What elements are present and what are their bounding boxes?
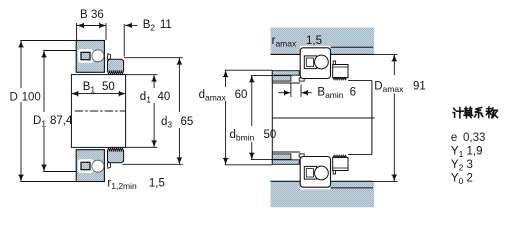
svg-text:B211: B211 — [143, 19, 172, 33]
dimension B2 extension line — [123, 24, 125, 57]
svg-text:Y02: Y02 — [451, 173, 473, 187]
ball bottom (right view) — [315, 166, 329, 180]
lock washer tab top (right view) — [333, 61, 335, 65]
svg-text:Y11,9: Y11,9 — [451, 146, 483, 160]
dimension D line — [20, 41, 22, 89]
cage window bottom (left view) — [78, 159, 93, 173]
shaft spacer ring top (right view) — [272, 76, 291, 82]
svg-text:d140: d140 — [140, 91, 170, 105]
cage pocket bottom (right view) — [306, 169, 313, 177]
svg-text:e0,33: e0,33 — [451, 132, 485, 144]
housing shoulder line top — [271, 53, 301, 55]
lock nut bottom (right view) — [333, 157, 348, 170]
svg-text:Damax91: Damax91 — [374, 81, 425, 95]
svg-text:d365: d365 — [161, 116, 193, 130]
shaft shoulder ring bottom (right view) — [272, 160, 299, 165]
shaft surface right of nut top — [348, 80, 372, 82]
dimension B2 leader — [125, 24, 138, 26]
svg-text:D187,4: D187,4 — [33, 115, 73, 129]
sleeve thread under nut top (left view) — [108, 71, 124, 74]
lock washer line top (right view) — [333, 66, 348, 68]
dimension D1 extension lines — [43, 50, 76, 52]
svg-text:D100: D100 — [10, 91, 41, 103]
svg-text:Y23: Y23 — [451, 159, 473, 173]
lock washer tab bottom (right view) — [333, 171, 335, 175]
housing seat line top right segment — [331, 46, 374, 48]
ball bottom (left view) — [92, 160, 104, 172]
dimension Damax extension lines — [373, 53, 398, 55]
cage rect bottom (right view) — [304, 166, 316, 179]
lock nut bottom (left view) — [108, 151, 124, 163]
cage pocket top (right view) — [306, 58, 313, 66]
svg-text:dbmin50: dbmin50 — [230, 129, 277, 143]
housing shoulder line bottom — [271, 180, 301, 182]
ball top (right view) — [315, 55, 329, 69]
shaft seat line top (right view) — [272, 82, 300, 84]
adapter sleeve body (left view) — [71, 75, 125, 148]
shaft seat line bottom (right view) — [272, 151, 300, 153]
dimension d3 extension lines — [124, 57, 183, 59]
shaft shoulder ring top (right view) — [272, 71, 299, 76]
sleeve left end step bottom (right view) — [299, 154, 304, 157]
dimension B extension lines — [76, 23, 78, 40]
ball top (left view) — [92, 50, 104, 62]
dimension B1 line — [71, 93, 125, 95]
dimension damax line — [225, 70, 227, 87]
dimension Damax line — [393, 54, 395, 75]
dimension Bamin extension lines — [290, 83, 292, 97]
housing seat line bottom right segment — [331, 187, 374, 189]
dimension damax extension lines — [225, 69, 272, 71]
dimension B line — [77, 25, 106, 27]
bearing outer+inner ring top section (left view) — [76, 41, 104, 73]
lock washer tab top (left view) — [107, 54, 110, 60]
shaft spacer ring bottom (right view) — [272, 154, 291, 160]
shaft axis line (right view) — [272, 117, 374, 119]
dimension d1 extension lines — [126, 74, 158, 76]
shaft end face line (right view) — [271, 71, 273, 165]
dimension dbmin line — [251, 75, 253, 126]
svg-text:damax60: damax60 — [199, 89, 248, 103]
dimension D extension lines — [20, 40, 76, 42]
nut thread top (right view) — [333, 78, 346, 80]
shaft right end face line — [371, 81, 373, 155]
lock nut top (left view) — [108, 59, 124, 71]
lock nut top (right view) — [333, 65, 348, 78]
lock washer tab bottom (left view) — [107, 163, 110, 169]
dimension dbmin extension lines — [251, 74, 272, 76]
svg-text:r1,2min1,5: r1,2min1,5 — [107, 178, 164, 192]
cage window top (left view) — [78, 49, 93, 63]
dimension d1 line — [153, 75, 155, 88]
housing section bottom (right view) — [271, 181, 375, 207]
cage pocket rect top (left view) — [81, 52, 90, 59]
cage rect top (right view) — [304, 56, 316, 69]
bearing section bottom (right view) — [300, 157, 330, 188]
bearing outer+inner ring bottom section (left view) — [76, 150, 104, 182]
svg-text:B36: B36 — [80, 9, 104, 21]
sleeve thread under nut bottom (left view) — [108, 148, 124, 151]
dimension d3 line — [178, 58, 180, 112]
sleeve left end step top (right view) — [299, 78, 304, 81]
center axis line (left view) — [75, 110, 126, 112]
shaft surface right of nut bottom — [348, 153, 372, 155]
table header 计算系数 (hand-drawn CJK) — [454, 108, 456, 110]
nut thread bottom (right view) — [333, 155, 346, 157]
dimension D1 line — [43, 51, 45, 113]
dimension Bamin arrows — [278, 92, 284, 94]
lock washer line bottom (right view) — [333, 167, 348, 169]
svg-text:Bamin6: Bamin6 — [317, 86, 356, 100]
housing section top (right view) — [271, 28, 375, 55]
bearing section top (right view) — [300, 48, 330, 79]
cage pocket rect bottom (left view) — [81, 162, 90, 169]
